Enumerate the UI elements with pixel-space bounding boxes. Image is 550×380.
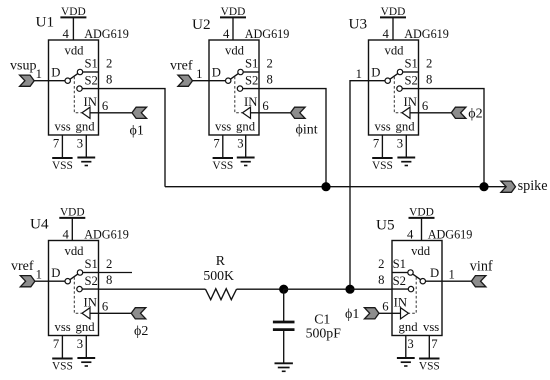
svg-text:2: 2 [106, 57, 112, 71]
IC U4 ADG619 analog switch [30, 216, 129, 352]
IC U1 ADG619 analog switch [36, 14, 129, 151]
svg-text:1: 1 [36, 67, 42, 81]
U5 switch contact S2 [408, 286, 413, 291]
U2 IN internal wire [251, 112, 260, 114]
svg-text:ϕ1: ϕ1 [345, 307, 359, 322]
svg-text:7: 7 [213, 137, 219, 151]
wire vref to U2 pin 1 [193, 80, 210, 82]
wire vref to U4 pin 1 [35, 280, 49, 282]
svg-text:4: 4 [383, 27, 390, 41]
svg-text:500pF: 500pF [306, 325, 342, 340]
svg-text:2: 2 [426, 57, 432, 71]
svg-text:vdd: vdd [64, 43, 84, 57]
svg-text:4: 4 [63, 228, 70, 242]
U3 IN driver triangle [402, 107, 410, 118]
IC U3 ADG619 analog switch [349, 16, 449, 151]
svg-text:D: D [51, 66, 60, 80]
U2 switch common contact [226, 78, 231, 83]
svg-text:1: 1 [196, 67, 202, 81]
svg-text:7: 7 [53, 137, 59, 151]
U4 S2 internal wire [82, 288, 98, 290]
svg-text:3: 3 [77, 337, 83, 351]
U2 IN driver triangle [243, 107, 251, 118]
power symbol VSS of U1 [52, 135, 73, 172]
power symbol VDD of U2 [220, 6, 246, 40]
U4 body outline [49, 241, 99, 336]
U1 S1 internal wire [83, 71, 99, 73]
junction C1 node [279, 285, 288, 294]
U5 D internal wire [426, 280, 443, 282]
svg-text:8: 8 [106, 72, 112, 86]
port vref to U2 [170, 59, 193, 87]
U1 switch lever [70, 74, 78, 80]
power symbol VSS of U2 [212, 135, 233, 172]
svg-text:U2: U2 [192, 16, 211, 33]
svg-text:U1: U1 [36, 14, 55, 31]
svg-text:S1: S1 [85, 57, 98, 71]
U3 switch common contact [385, 78, 390, 83]
svg-text:vss: vss [55, 320, 71, 334]
port phi2 at U3 [451, 107, 482, 122]
wire phi1 to U5 pin 6 [379, 312, 392, 314]
wire spike net horizontal [165, 186, 506, 188]
svg-text:ϕ2: ϕ2 [468, 107, 482, 122]
U3 switch contact S2 [397, 86, 402, 91]
U2 D internal wire [209, 80, 226, 82]
U4 IN driver triangle [82, 308, 90, 319]
U2 S2 internal wire [243, 88, 259, 90]
power symbol VDD of U1 [60, 6, 86, 40]
U4 control dashed line [74, 277, 81, 313]
svg-text:vss: vss [375, 120, 391, 134]
port phi1 at U1 [130, 107, 147, 138]
wire node to U5 pin 8 [350, 288, 392, 290]
svg-text:4: 4 [223, 27, 230, 41]
U4 IN internal wire [90, 312, 99, 314]
svg-text:ADG619: ADG619 [84, 228, 129, 242]
svg-text:8: 8 [426, 72, 432, 86]
port phi1 at U5 [345, 307, 379, 322]
svg-text:gnd: gnd [399, 320, 419, 334]
svg-text:vdd: vdd [225, 43, 245, 57]
ground symbol at U2 [237, 135, 255, 166]
wire U4 pin 8 to resistor [99, 288, 206, 290]
svg-text:1: 1 [36, 268, 42, 282]
power symbol VSS of U3 [372, 135, 393, 172]
U1 body outline [49, 40, 99, 135]
svg-text:vsup: vsup [10, 59, 36, 74]
U2 S1 internal wire [243, 71, 259, 73]
wire U1 pin 8 to spike net [99, 89, 166, 187]
U5 control dashed line [409, 277, 416, 313]
svg-text:U5: U5 [376, 217, 395, 234]
U4 switch contact S2 [77, 286, 82, 291]
power symbol VDD of U3 [380, 6, 406, 40]
power symbol VDD of U5 [409, 207, 435, 241]
svg-text:S2: S2 [405, 74, 418, 88]
U4 switch common contact [65, 279, 70, 284]
svg-text:S1: S1 [405, 57, 418, 71]
U2 switch contact S1 [238, 69, 243, 74]
U1 IN internal wire [90, 112, 99, 114]
junction U2 S2 / spike net [321, 182, 330, 191]
U5 body outline [392, 241, 442, 336]
svg-text:S1: S1 [393, 257, 406, 271]
svg-text:S1: S1 [85, 257, 98, 271]
U4 D internal wire [49, 280, 66, 282]
svg-text:gnd: gnd [76, 320, 96, 334]
svg-text:C1: C1 [314, 311, 330, 326]
wire U4 pin 2 stub [99, 272, 133, 274]
U3 S2 internal wire [402, 88, 418, 90]
svg-text:7: 7 [373, 137, 379, 151]
svg-text:vref: vref [11, 259, 34, 274]
U5 IN driver triangle [401, 308, 409, 319]
svg-text:S2: S2 [245, 74, 258, 88]
U1 IN driver triangle [82, 107, 90, 118]
svg-text:3: 3 [407, 337, 413, 351]
U3 S1 internal wire [403, 71, 419, 73]
U1 switch contact S2 [77, 86, 82, 91]
junction U3 S2 / spike net [479, 182, 488, 191]
svg-text:VSS: VSS [52, 160, 73, 172]
U1 switch contact S1 [77, 69, 82, 74]
U3 body outline [369, 40, 419, 135]
svg-text:S2: S2 [85, 274, 98, 288]
svg-text:500K: 500K [203, 268, 234, 283]
wire U3 pin 8 down to spike net [419, 89, 485, 187]
svg-text:6: 6 [102, 99, 108, 113]
U3 control dashed line [394, 77, 401, 113]
svg-text:3: 3 [77, 137, 83, 151]
ground symbol at C1 [275, 363, 293, 371]
svg-text:VSS: VSS [419, 360, 440, 372]
svg-text:D: D [51, 266, 60, 280]
svg-text:ϕ1: ϕ1 [130, 123, 144, 138]
wire vsup to U1 pin 1 [34, 80, 48, 82]
U5 IN internal wire [392, 312, 401, 314]
svg-text:gnd: gnd [236, 120, 256, 134]
wire U3 pin 6 to phi2 [419, 112, 452, 114]
port vref to U4 [11, 259, 35, 287]
svg-text:gnd: gnd [396, 120, 416, 134]
svg-text:U3: U3 [349, 16, 368, 33]
svg-text:8: 8 [106, 273, 112, 287]
svg-text:S2: S2 [85, 74, 98, 88]
U3 switch lever [390, 74, 398, 80]
svg-text:3: 3 [397, 137, 403, 151]
svg-text:spike: spike [518, 178, 548, 194]
power symbol VSS of U5 [419, 336, 440, 373]
wire U2 pin 6 to phiint [259, 112, 291, 114]
svg-text:ϕint: ϕint [296, 122, 318, 137]
svg-text:2: 2 [378, 257, 384, 271]
svg-text:3: 3 [237, 137, 243, 151]
svg-text:D: D [212, 66, 221, 80]
svg-text:7: 7 [431, 337, 437, 351]
U5 S1 internal wire [392, 272, 408, 274]
svg-text:7: 7 [53, 337, 59, 351]
svg-text:VSS: VSS [52, 360, 73, 372]
port vinf output [470, 259, 493, 287]
port vsup input [10, 59, 36, 87]
U5 switch common contact [420, 279, 425, 284]
U4 switch lever [70, 274, 78, 280]
svg-text:S2: S2 [393, 274, 406, 288]
svg-text:ADG619: ADG619 [245, 27, 290, 41]
svg-text:4: 4 [63, 27, 70, 41]
wire U4 pin 6 to phi2 [99, 312, 132, 314]
svg-text:vss: vss [55, 120, 71, 134]
wire U3 pin 1 down to RC node [350, 81, 369, 290]
U1 D internal wire [49, 80, 66, 82]
U5 switch contact S1 [408, 270, 413, 275]
svg-text:D: D [371, 66, 380, 80]
svg-text:2: 2 [267, 57, 273, 71]
U3 switch contact S1 [397, 69, 402, 74]
svg-text:ADG619: ADG619 [84, 27, 129, 41]
resistor R 500K [203, 253, 236, 300]
svg-text:vdd: vdd [411, 244, 431, 258]
svg-text:4: 4 [407, 228, 414, 242]
svg-text:6: 6 [262, 99, 268, 113]
svg-text:vss: vss [423, 320, 439, 334]
svg-text:gnd: gnd [76, 120, 96, 134]
port spike output [501, 178, 548, 194]
U2 switch lever [230, 74, 238, 80]
wire U2 pin 8 down to spike net [259, 89, 326, 187]
svg-text:D: D [430, 266, 439, 280]
svg-text:S1: S1 [245, 57, 258, 71]
svg-text:8: 8 [378, 273, 384, 287]
ground symbol at U1 [77, 135, 95, 166]
ground symbol at U5 [397, 336, 415, 367]
U1 switch common contact [65, 78, 70, 83]
ground symbol at U3 [397, 135, 415, 166]
svg-text:VSS: VSS [212, 160, 233, 172]
svg-text:6: 6 [382, 299, 388, 313]
svg-text:vinf: vinf [470, 259, 493, 275]
U1 S2 internal wire [82, 88, 98, 90]
svg-text:ϕ2: ϕ2 [134, 324, 148, 339]
svg-text:2: 2 [106, 257, 112, 271]
svg-text:vdd: vdd [64, 244, 84, 258]
svg-text:R: R [216, 253, 226, 268]
U4 switch contact S1 [77, 270, 82, 275]
svg-text:VSS: VSS [372, 160, 393, 172]
U2 body outline [209, 40, 259, 135]
svg-text:8: 8 [267, 72, 273, 86]
wire U1 pin 6 to phi1 [99, 112, 133, 114]
svg-text:vref: vref [170, 59, 193, 74]
U2 switch contact S2 [237, 86, 242, 91]
U5 switch lever [413, 274, 421, 280]
svg-text:vdd: vdd [384, 43, 404, 57]
power symbol VDD of U4 [59, 207, 85, 241]
port phi2 at U4 [131, 308, 148, 339]
U3 IN internal wire [410, 112, 419, 114]
U4 S1 internal wire [83, 272, 99, 274]
svg-text:U4: U4 [30, 216, 49, 233]
wire resistor to C1 node [237, 288, 284, 290]
svg-text:vss: vss [215, 120, 231, 134]
U1 control dashed line [74, 77, 81, 113]
junction U3 branch node [345, 285, 354, 294]
capacitor C1 500pF [273, 289, 341, 363]
svg-text:1: 1 [356, 67, 362, 81]
svg-text:6: 6 [102, 299, 108, 313]
IC U2 ADG619 analog switch [192, 16, 289, 151]
wire C1 node to U3 branch node [284, 288, 350, 290]
power symbol VSS of U4 [52, 336, 73, 373]
IC U5 ADG619 analog switch [376, 217, 472, 352]
svg-text:ADG619: ADG619 [404, 27, 449, 41]
svg-text:6: 6 [422, 99, 428, 113]
wire U5 pin 1 to vinf [442, 280, 471, 282]
U2 control dashed line [235, 77, 242, 113]
svg-text:ADG619: ADG619 [428, 228, 473, 242]
svg-text:1: 1 [449, 268, 455, 282]
ground symbol at U4 [77, 336, 95, 367]
U5 S2 internal wire [392, 288, 408, 290]
port phiint at U2 [291, 107, 318, 137]
U3 D internal wire [369, 80, 386, 82]
